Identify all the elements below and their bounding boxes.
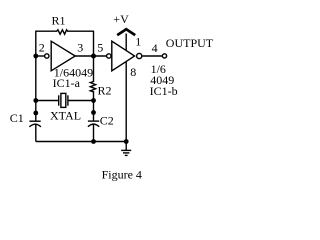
svg-text:5: 5 <box>97 41 103 55</box>
svg-text:IC1-b: IC1-b <box>150 84 178 98</box>
svg-text:2: 2 <box>39 41 45 55</box>
svg-text:Figure 4: Figure 4 <box>102 168 142 182</box>
svg-text:+V: +V <box>113 12 129 26</box>
svg-text:R1: R1 <box>52 14 66 28</box>
svg-text:1: 1 <box>135 34 141 48</box>
svg-text:8: 8 <box>130 65 136 79</box>
svg-text:XTAL: XTAL <box>50 108 81 122</box>
svg-text:3: 3 <box>77 41 83 55</box>
svg-text:IC1-a: IC1-a <box>53 76 81 90</box>
svg-text:4: 4 <box>152 41 158 55</box>
svg-text:R2: R2 <box>98 84 112 98</box>
svg-text:C1: C1 <box>10 111 24 125</box>
svg-text:C2: C2 <box>100 114 114 128</box>
svg-text:OUTPUT: OUTPUT <box>166 36 214 50</box>
